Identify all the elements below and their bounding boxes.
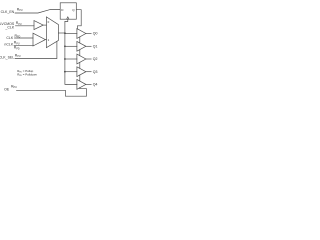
wire CLK to diff receiver U2 <box>15 37 34 39</box>
svg-text:RPU: RPU <box>16 21 22 26</box>
svg-text:Q1: Q1 <box>93 45 98 49</box>
svg-text:Q4: Q4 <box>93 83 98 87</box>
node C junction dot <box>64 58 66 60</box>
op-amp U2 (CLK/nCLK differential receiver) <box>33 33 45 46</box>
wire mux output to node A <box>58 32 65 34</box>
svg-text:1: 1 <box>48 38 50 42</box>
node B junction dot <box>64 45 66 47</box>
buffer U6 (output Q1) <box>77 41 86 51</box>
svg-text:RPU: RPU <box>11 84 17 89</box>
svg-text:Q2: Q2 <box>93 57 98 61</box>
svg-text:CLK_EN: CLK_EN <box>1 10 15 14</box>
svg-text:Q3: Q3 <box>93 70 98 74</box>
wire U4 Q output to buffer enable chain <box>76 10 81 29</box>
wire enable stub U8-U9 <box>79 75 81 81</box>
svg-text:Q0: Q0 <box>93 32 98 36</box>
wire output Q0 <box>86 33 91 35</box>
wire U2 output to mux <box>45 39 46 41</box>
wire branch to buffer Q3 <box>65 71 77 73</box>
wire output Q3 <box>86 71 91 73</box>
wire U4 clock from bus <box>65 19 68 21</box>
wire clock bus <box>65 22 77 85</box>
wire nCLK to diff receiver U2 <box>14 44 33 46</box>
svg-text:RPU: RPU <box>17 8 23 13</box>
buffer U5 (output Q0) <box>77 29 86 39</box>
wire branch to buffer Q0 <box>65 33 77 35</box>
svg-text:RPD: RPD <box>14 46 20 51</box>
wire enable stub U6-U7 <box>79 50 81 56</box>
svg-text:OE: OE <box>4 87 10 91</box>
svg-text:nCLK: nCLK <box>4 42 13 46</box>
buffer U8 (output Q3) <box>77 67 86 77</box>
wire CLK_SEL to mux select <box>15 41 57 58</box>
node A junction dot <box>64 32 66 34</box>
wire output Q1 <box>86 45 91 47</box>
node D junction dot <box>64 71 66 73</box>
wire enable stub U7-U8 <box>79 62 81 68</box>
svg-text:_CLK: _CLK <box>4 26 14 30</box>
svg-text:RPU: RPU <box>14 41 20 46</box>
flip-flop U4 <box>60 3 76 19</box>
svg-text:RPD: RPD <box>15 34 21 39</box>
wire branch to buffer Q1 <box>65 45 77 47</box>
buffer U7 (output Q2) <box>77 54 86 64</box>
wire OE routing to output enables <box>17 88 87 97</box>
clock wedge of U4 <box>67 17 69 19</box>
wire branch to buffer Q2 <box>65 58 77 60</box>
svg-text:CLK_SEL: CLK_SEL <box>0 56 14 60</box>
svg-text:CLK: CLK <box>6 36 13 40</box>
wire CLK_EN to D input <box>15 10 60 13</box>
wire LVCMOS_CLK to buffer U1 <box>16 25 35 27</box>
buffer U9 (output Q4) <box>77 80 86 90</box>
svg-text:Q: Q <box>72 8 75 12</box>
svg-text:D: D <box>61 8 64 12</box>
wire U1 output to mux <box>43 24 46 26</box>
buffer U1 (LVCMOS_CLK input buffer) <box>34 21 43 30</box>
wire output Q2 <box>86 58 91 60</box>
svg-text:0: 0 <box>48 20 50 24</box>
wire output Q4 <box>86 83 91 85</box>
svg-text:RPU: RPU <box>15 53 21 58</box>
mux U3 <box>46 17 58 48</box>
wire enable stub U5-U6 <box>79 37 81 43</box>
